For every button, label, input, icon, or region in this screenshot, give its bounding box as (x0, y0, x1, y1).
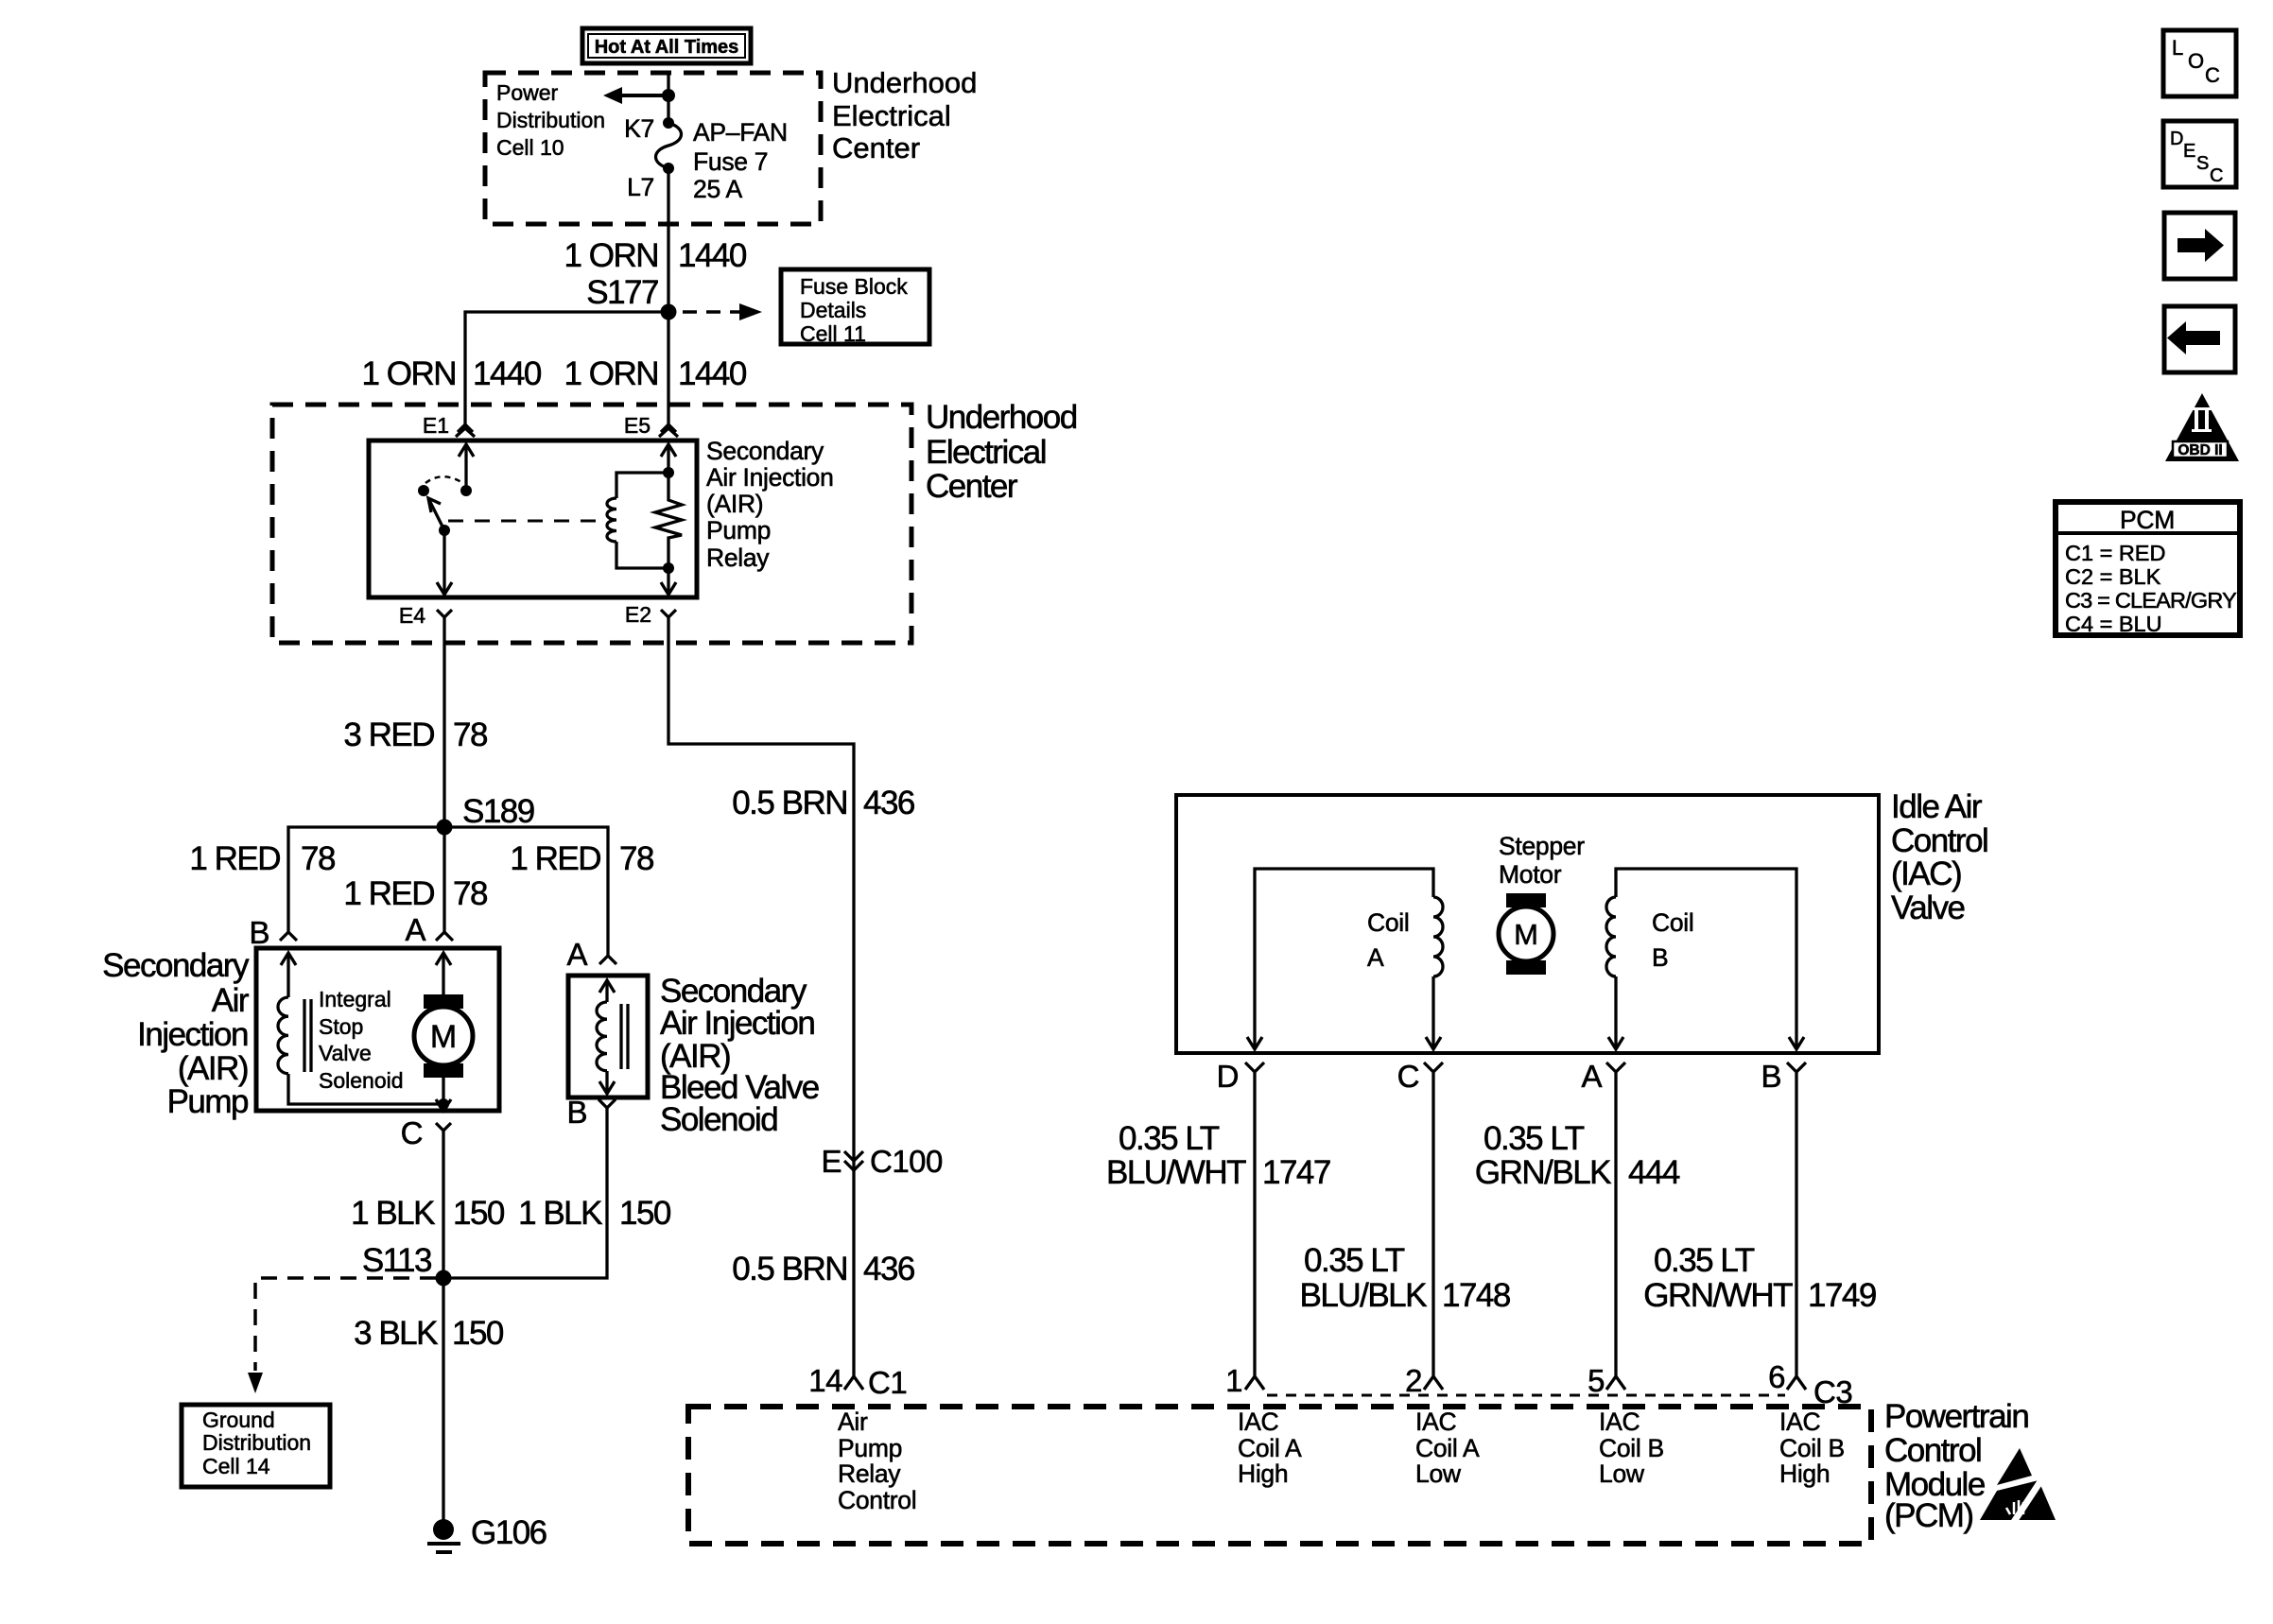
svg-text:Valve: Valve (1891, 890, 1964, 926)
svg-text:1 BLK: 1 BLK (351, 1195, 435, 1232)
svg-text:Underhood: Underhood (926, 399, 1077, 436)
wire fuse L7 down to S177 (667, 168, 669, 312)
wire S189 right branch to bleed A (444, 827, 608, 956)
svg-text:436: 436 (863, 785, 914, 821)
svg-text:Motor: Motor (1499, 860, 1562, 889)
IAC coil B loop (1614, 976, 1617, 1049)
svg-text:BLU/BLK: BLU/BLK (1300, 1277, 1428, 1314)
svg-text:L: L (2172, 36, 2183, 60)
in-line connector E C100 (844, 1151, 863, 1170)
svg-text:1 RED: 1 RED (510, 840, 600, 877)
relay: leg to E2 with down arrow (667, 568, 669, 595)
solenoid lower wire to motor node (288, 1074, 443, 1104)
svg-text:Details: Details (800, 298, 866, 322)
svg-text:D: D (1217, 1059, 1239, 1094)
relay switch blade with arrow (428, 498, 444, 530)
svg-text:(PCM): (PCM) (1884, 1497, 1973, 1534)
svg-text:Coil B: Coil B (1599, 1434, 1664, 1462)
wire S189 center branch to pump A (442, 827, 445, 932)
pump motor M (414, 953, 473, 1104)
bleed solenoid up arrow (605, 980, 608, 1002)
svg-text:Cell 10: Cell 10 (496, 135, 564, 160)
Ground Distribution Cell 14 box (182, 1405, 330, 1487)
svg-text:GRN/BLK: GRN/BLK (1475, 1154, 1611, 1191)
svg-text:Fuse Block: Fuse Block (800, 274, 908, 299)
svg-text:IAC: IAC (1238, 1408, 1278, 1436)
svg-text:436: 436 (863, 1251, 914, 1287)
svg-text:(IAC): (IAC) (1891, 855, 1961, 892)
dashed actuation link from switch to coil (448, 520, 605, 523)
svg-text:Hot At All Times: Hot At All Times (595, 37, 739, 58)
svg-text:Electrical: Electrical (832, 99, 951, 132)
AIR pump relay box (369, 441, 697, 597)
svg-text:L7: L7 (627, 173, 654, 201)
svg-text:C4 = BLU: C4 = BLU (2065, 612, 2162, 636)
svg-text:A: A (1367, 943, 1384, 972)
svg-text:M: M (1514, 918, 1538, 951)
svg-text:Solenoid: Solenoid (319, 1068, 404, 1093)
relay: E5 leg with up arrow (667, 444, 669, 473)
ESD sensitivity symbol (1980, 1448, 2056, 1528)
svg-text:IAC: IAC (1779, 1408, 1820, 1436)
svg-text:A: A (566, 937, 587, 972)
svg-text:C2 = BLK: C2 = BLK (2065, 564, 2161, 589)
relay switch travel arc (dashed) (425, 476, 461, 483)
svg-text:S189: S189 (462, 793, 534, 830)
svg-text:Distribution: Distribution (496, 108, 605, 132)
svg-text:0.5 BRN: 0.5 BRN (732, 1251, 847, 1287)
svg-text:Stepper: Stepper (1499, 832, 1585, 860)
wire B to PCM pin 6 (1795, 1072, 1797, 1376)
svg-text:E2: E2 (625, 602, 651, 627)
svg-text:1 RED: 1 RED (343, 875, 434, 912)
svg-text:Center: Center (832, 131, 920, 164)
svg-text:78: 78 (619, 840, 653, 877)
ground G106 (427, 1519, 460, 1552)
back arrow icon box (2164, 306, 2235, 372)
relay switch fixed contact (460, 485, 472, 496)
svg-text:OBD II: OBD II (2178, 442, 2222, 458)
svg-text:Integral: Integral (319, 987, 391, 1011)
connector A (pump) (436, 932, 453, 941)
svg-text:(AIR): (AIR) (178, 1050, 248, 1087)
svg-text:Solenoid: Solenoid (660, 1101, 777, 1138)
svg-text:Air: Air (838, 1408, 868, 1436)
svg-text:Distribution: Distribution (202, 1430, 311, 1455)
PCM pin 2 connector (1424, 1376, 1443, 1390)
svg-text:Fuse 7: Fuse 7 (693, 147, 768, 176)
svg-text:3 RED: 3 RED (343, 717, 434, 753)
svg-text:1 BLK: 1 BLK (518, 1195, 602, 1232)
svg-text:Low: Low (1415, 1460, 1462, 1488)
svg-text:0.35 LT: 0.35 LT (1304, 1242, 1405, 1279)
svg-text:C3 = CLEAR/GRY: C3 = CLEAR/GRY (2065, 588, 2237, 613)
svg-text:IAC: IAC (1599, 1408, 1640, 1436)
svg-text:0.35 LT: 0.35 LT (1484, 1120, 1585, 1157)
svg-text:Coil A: Coil A (1415, 1434, 1480, 1462)
svg-text:Air Injection: Air Injection (706, 463, 834, 492)
svg-text:A: A (1581, 1059, 1602, 1094)
forward arrow icon box (2164, 213, 2235, 279)
svg-text:C1: C1 (868, 1365, 907, 1400)
svg-text:1747: 1747 (1262, 1154, 1330, 1191)
svg-text:Valve: Valve (319, 1041, 372, 1065)
svg-text:Pump: Pump (838, 1434, 902, 1462)
svg-text:Air Injection: Air Injection (660, 1005, 814, 1042)
svg-text:5: 5 (1588, 1363, 1605, 1398)
svg-text:Control: Control (1884, 1432, 1981, 1469)
svg-text:150: 150 (452, 1315, 504, 1352)
dashed wire S113 to ground distribution (255, 1278, 436, 1371)
svg-text:AP–FAN: AP–FAN (693, 118, 788, 147)
svg-text:1 ORN: 1 ORN (564, 355, 658, 392)
connector E2 (661, 610, 676, 617)
wire C to PCM pin 2 (1431, 1072, 1434, 1376)
wire C down to S113 (442, 1131, 444, 1278)
underhood electrical center box 2 (dashed) (272, 405, 911, 643)
svg-text:Coil: Coil (1652, 908, 1693, 937)
svg-text:E: E (821, 1144, 842, 1179)
svg-text:S177: S177 (586, 274, 658, 311)
svg-text:Coil: Coil (1367, 908, 1409, 937)
svg-text:Pump: Pump (167, 1083, 248, 1120)
svg-text:1440: 1440 (678, 355, 747, 392)
svg-text:1 ORN: 1 ORN (362, 355, 456, 392)
svg-text:1 RED: 1 RED (189, 840, 280, 877)
IAC coil B down arrows (1608, 1037, 1623, 1049)
svg-text:IAC: IAC (1415, 1408, 1456, 1436)
wire B bleed down and left to S113 (443, 1108, 607, 1278)
svg-text:78: 78 (453, 717, 487, 753)
svg-text:C: C (2210, 165, 2223, 186)
svg-text:GRN/WHT: GRN/WHT (1643, 1277, 1793, 1314)
Fuse Block Details Cell 11 box (781, 269, 929, 346)
svg-text:150: 150 (453, 1195, 505, 1232)
svg-text:444: 444 (1628, 1154, 1680, 1191)
wire E4 down to S189 (442, 617, 445, 827)
svg-text:S: S (2196, 153, 2209, 174)
IAC stepper motor (1499, 832, 1585, 975)
svg-text:Underhood: Underhood (832, 66, 977, 99)
PCM pin 6 connector (1787, 1376, 1806, 1390)
svg-text:Ground: Ground (202, 1408, 275, 1432)
relay resistor (parallel) (655, 473, 682, 568)
svg-text:O: O (2188, 49, 2204, 73)
svg-text:0.5 BRN: 0.5 BRN (732, 785, 847, 821)
connector C (IAC) (1424, 1063, 1443, 1072)
secondary air injection bleed valve solenoid box (568, 976, 648, 1097)
bleed solenoid coil (597, 1002, 607, 1071)
relay switch pivot contact (418, 485, 429, 496)
svg-text:A: A (405, 912, 425, 947)
svg-text:C: C (1397, 1059, 1419, 1094)
svg-text:High: High (1238, 1460, 1288, 1488)
connector E5 (659, 424, 678, 437)
svg-text:Relay: Relay (838, 1460, 901, 1488)
connector D (IAC) (1245, 1063, 1264, 1072)
svg-text:1749: 1749 (1808, 1277, 1876, 1314)
svg-text:14: 14 (808, 1363, 842, 1398)
wire S113 down to G106 (442, 1278, 444, 1522)
svg-text:Injection: Injection (137, 1016, 248, 1053)
svg-text:Pump: Pump (706, 516, 771, 544)
svg-text:E: E (2183, 141, 2195, 162)
svg-text:150: 150 (619, 1195, 671, 1232)
svg-text:Cell 11: Cell 11 (800, 321, 866, 346)
svg-text:B: B (1652, 943, 1668, 972)
svg-text:M: M (430, 1019, 457, 1055)
svg-text:BLU/WHT: BLU/WHT (1106, 1154, 1246, 1191)
svg-text:C1 = RED: C1 = RED (2065, 541, 2165, 565)
svg-text:3 BLK: 3 BLK (354, 1315, 438, 1352)
wire S177 left branch to E1 (465, 312, 668, 425)
connector E4 (437, 610, 452, 617)
svg-text:25 A: 25 A (693, 175, 742, 203)
svg-text:Control: Control (838, 1486, 916, 1514)
IAC coil A loop (1255, 869, 1433, 1049)
svg-text:Control: Control (1891, 822, 1987, 859)
integral stop valve solenoid coil (278, 997, 288, 1074)
PCM pin 1 connector (1245, 1376, 1264, 1390)
underhood electrical center box 1 (dashed) (485, 73, 821, 224)
svg-text:G106: G106 (471, 1514, 547, 1551)
relay coil branch (616, 473, 668, 498)
junction node on feed (662, 89, 675, 102)
svg-text:2: 2 (1405, 1363, 1422, 1398)
svg-text:PCM: PCM (2120, 506, 2175, 534)
svg-text:Low: Low (1599, 1460, 1645, 1488)
svg-text:C100: C100 (870, 1144, 943, 1179)
svg-text:6: 6 (1768, 1359, 1785, 1394)
svg-text:E5: E5 (624, 413, 651, 438)
wire S177 down to E5 (667, 312, 669, 425)
svg-text:78: 78 (453, 875, 487, 912)
pump: C leg down arrow (442, 1104, 444, 1110)
connector A (bleed) (599, 956, 616, 964)
svg-text:Coil A: Coil A (1238, 1434, 1302, 1462)
PCM pin 5 connector (1606, 1376, 1625, 1390)
svg-text:K7: K7 (624, 114, 654, 143)
secondary air injection pump box (256, 948, 499, 1111)
wire D to PCM pin 1 (1253, 1072, 1256, 1376)
connector B (IAC) (1787, 1063, 1806, 1072)
relay: leg to E4 with down arrow (442, 530, 445, 595)
svg-text:Powertrain: Powertrain (1884, 1398, 2028, 1435)
svg-text:E4: E4 (399, 603, 425, 628)
pump: B leg up arrow (286, 953, 289, 997)
junction node at motor return (438, 1098, 449, 1110)
svg-text:B: B (566, 1095, 587, 1130)
connector E1 (456, 424, 475, 437)
wire S189 left branch to pump B (288, 827, 444, 932)
PCM connector color legend box (2056, 502, 2240, 636)
svg-text:Coil B: Coil B (1779, 1434, 1845, 1462)
connector C (pump) (436, 1123, 451, 1131)
svg-text:Power: Power (496, 80, 559, 105)
svg-text:D: D (2170, 129, 2183, 149)
branch arrow to power distribution (620, 94, 668, 97)
svg-text:B: B (249, 915, 269, 950)
svg-text:(AIR): (AIR) (706, 490, 763, 518)
IAC coil A down arrows (1247, 1037, 1262, 1049)
Hot At All Times label box (582, 28, 751, 63)
svg-text:78: 78 (301, 840, 335, 877)
svg-text:C: C (2205, 63, 2220, 87)
connector A (IAC) (1606, 1063, 1625, 1072)
svg-text:Stop: Stop (319, 1014, 363, 1039)
PCM pin 14 connector (844, 1376, 863, 1390)
svg-text:High: High (1779, 1460, 1830, 1488)
bleed solenoid down arrow (605, 1071, 608, 1094)
relay: E1 leg with up arrow (464, 444, 467, 491)
DESC icon box (2163, 121, 2236, 187)
svg-text:Cell 14: Cell 14 (202, 1454, 270, 1478)
svg-text:Idle Air: Idle Air (1891, 788, 1983, 825)
svg-text:Relay: Relay (706, 544, 770, 572)
dashed arrow to fuse block details (683, 310, 741, 314)
idle air control valve box (1176, 795, 1879, 1053)
powertrain control module box (dashed) (688, 1407, 1871, 1544)
svg-text:Secondary: Secondary (706, 437, 824, 465)
svg-text:1440: 1440 (473, 355, 542, 392)
thin dashed connector face line C3 (1267, 1394, 1785, 1397)
wire: feed from top into fuse K7 (667, 73, 669, 123)
OBD II symbol (2165, 393, 2239, 461)
svg-text:1 ORN: 1 ORN (564, 237, 658, 274)
svg-text:S113: S113 (362, 1242, 431, 1279)
svg-text:0.35 LT: 0.35 LT (1654, 1242, 1755, 1279)
LOC icon box (2163, 30, 2236, 96)
connector B (bleed) (599, 1099, 616, 1108)
svg-text:B: B (1761, 1059, 1781, 1094)
wire A to PCM pin 5 (1614, 1072, 1617, 1376)
svg-text:1: 1 (1225, 1363, 1242, 1398)
connector B (pump) (280, 932, 297, 941)
svg-text:Air: Air (212, 982, 250, 1019)
svg-text:Center: Center (926, 468, 1018, 505)
svg-text:C: C (401, 1115, 423, 1150)
fuse F7 AP-FAN 25 A (656, 117, 682, 174)
svg-text:0.35 LT: 0.35 LT (1119, 1120, 1220, 1157)
svg-text:1440: 1440 (678, 237, 747, 274)
svg-text:E1: E1 (423, 413, 449, 438)
svg-text:Secondary: Secondary (102, 947, 250, 984)
wire E2 down, right, down to PCM pin 14 (668, 617, 854, 1376)
svg-text:1748: 1748 (1442, 1277, 1510, 1314)
svg-text:Electrical: Electrical (926, 434, 1046, 471)
